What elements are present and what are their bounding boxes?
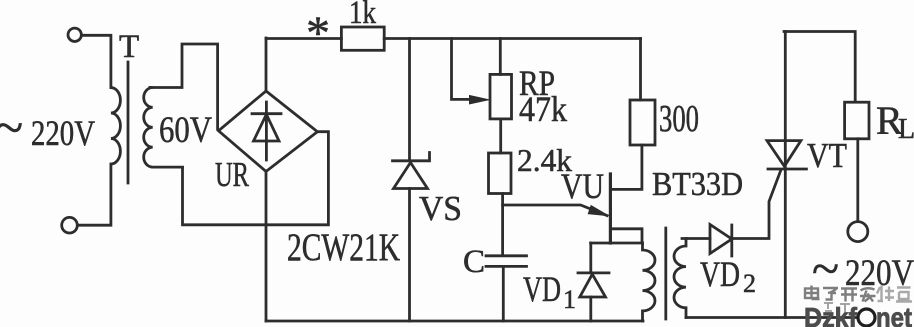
UJT VU base bar [609,174,612,243]
thyristor VT anode wire [784,32,787,318]
wire secondary winding to VD2 [682,237,710,240]
svg-text:47k: 47k [519,89,567,129]
svg-text:C: C [463,244,485,280]
diode VD1 lower lead [589,297,592,321]
diode VD2 symbol [710,225,732,257]
transformer T primary winding [78,88,121,226]
svg-text:VD: VD [523,269,561,309]
svg-text:net: net [876,302,912,327]
svg-text:220V: 220V [31,113,95,153]
svg-text:*: * [306,7,330,60]
wire 2.4k to capacitor C [501,194,504,256]
AC load terminal lower [858,309,875,326]
svg-text:Dzkf: Dzkf [804,302,858,327]
watermark Dzkf.net logo [804,302,912,327]
potentiometer RP wiper arrow [469,95,491,105]
node wire VD1/pulse-transformer top [591,242,643,245]
bridge rectifier UR diamond [219,91,318,172]
UJT VU base1 lead [610,229,642,241]
bottom negative rail [266,320,643,323]
capacitor C bottom plate [486,265,527,268]
svg-text:L: L [898,114,914,145]
pulse transformer secondary winding [674,239,686,318]
potentiometer RP wiper wire [452,39,472,100]
wire secondary top to bridge left vertex [150,44,218,129]
svg-text:2: 2 [743,269,756,298]
resistor R 1k body [341,27,384,50]
svg-text:VU: VU [561,166,604,206]
zener diode VS branch wire lower [408,189,411,322]
wire capacitor C to bottom rail [502,266,505,321]
top positive rail left of 1k [266,37,341,40]
resistor 2.4k body [489,153,512,194]
diode VD1 upper lead [589,243,592,273]
svg-text:300: 300 [659,98,699,140]
capacitor C top plate [486,254,527,257]
svg-text:UR: UR [215,155,249,194]
wire VD2 to gate [732,171,781,239]
svg-text:60V: 60V [159,110,212,151]
wire secondary bottom to bridge right vertex (AC2 rail) [183,132,329,225]
svg-text:~: ~ [0,100,23,157]
svg-text:VD: VD [700,254,740,294]
svg-text:BT33D: BT33D [652,166,743,203]
thyristor VT symbol [767,141,806,169]
transformer T secondary winding [144,88,183,168]
wire RP to 2.4k [499,119,502,153]
wire top rail to RP [499,39,502,75]
svg-text:VT: VT [807,136,847,175]
watermark 电子开发社区 (drawn glyph blocks) [805,286,912,302]
zener diode VS symbol [393,153,430,189]
potentiometer RP body [490,74,512,119]
wire bridge bottom vertex to bottom rail [265,172,268,322]
wire bridge top vertex to top rail [265,38,268,91]
load resistor RL body [845,102,869,139]
zener diode VS branch wire upper [408,39,411,161]
top rail load circuit [784,32,855,102]
svg-text:1k: 1k [349,0,376,31]
AC source terminal top-left [68,28,81,41]
AC source terminal bottom-left [62,217,78,233]
UJT VU emitter arrow [588,205,611,217]
bottom rail load circuit [686,316,858,319]
AC load terminal upper [848,222,868,242]
svg-text:2CW21K: 2CW21K [287,226,400,269]
bridge rectifier UR inner diode [252,102,281,160]
wire emitter junction to UJT VU [503,205,607,216]
wire top-left terminal to primary [82,35,111,87]
diode VD1 symbol [578,273,609,297]
resistor 300 body [630,100,655,145]
transformer T core [127,62,130,183]
svg-text:1: 1 [563,285,576,314]
pulse transformer primary winding [643,243,656,321]
pulse transformer core [664,228,667,319]
wire RL to terminal [856,139,859,222]
UJT VU base2 lead [610,145,642,189]
top positive rail right of 1k [384,37,640,40]
svg-text:VS: VS [419,189,462,228]
wire 300 to top rail [639,39,642,101]
svg-text:T: T [119,29,139,65]
